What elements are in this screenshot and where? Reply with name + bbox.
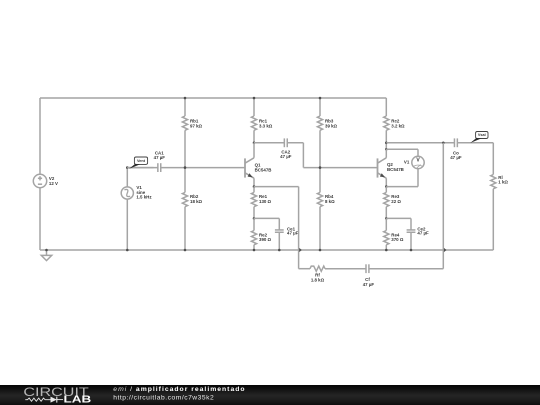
svg-text:8 kΩ: 8 kΩ xyxy=(325,199,335,204)
svg-text:47 µF: 47 µF xyxy=(287,231,299,236)
svg-text:47 µF: 47 µF xyxy=(280,154,292,159)
svg-text:12 V: 12 V xyxy=(49,181,58,186)
svg-text:Vent: Vent xyxy=(137,159,146,163)
svg-text:BC547B: BC547B xyxy=(387,167,404,172)
svg-text:390 Ω: 390 Ω xyxy=(259,237,272,242)
svg-text:http://circuitlab.com/c7w35k2: http://circuitlab.com/c7w35k2 xyxy=(113,395,214,402)
svg-text:BC547B: BC547B xyxy=(255,167,272,172)
svg-text:V1: V1 xyxy=(404,159,410,164)
svg-text:18 kΩ: 18 kΩ xyxy=(190,199,203,204)
svg-text:47 µF: 47 µF xyxy=(417,231,429,236)
svg-text:3.3 kΩ: 3.3 kΩ xyxy=(259,123,273,128)
svg-text:1.8 kΩ: 1.8 kΩ xyxy=(311,278,325,283)
svg-text:130 Ω: 130 Ω xyxy=(259,199,272,204)
svg-text:Vsal: Vsal xyxy=(478,133,486,137)
svg-text:22 Ω: 22 Ω xyxy=(391,199,401,204)
svg-text:47 µF: 47 µF xyxy=(154,155,166,160)
svg-text:LAB: LAB xyxy=(64,395,92,405)
svg-text:39 kΩ: 39 kΩ xyxy=(325,123,338,128)
svg-text:3.2 kΩ: 3.2 kΩ xyxy=(391,123,405,128)
svg-text:370 Ω: 370 Ω xyxy=(391,237,404,242)
svg-text:47 µF: 47 µF xyxy=(363,282,375,287)
svg-text:Rf: Rf xyxy=(315,272,320,277)
svg-text:97 kΩ: 97 kΩ xyxy=(190,123,203,128)
svg-text:47 µF: 47 µF xyxy=(450,155,462,160)
svg-text:1.5 kHz: 1.5 kHz xyxy=(136,195,152,200)
svg-text:1 kΩ: 1 kΩ xyxy=(498,180,508,185)
svg-text:emi / amplificador realimentad: emi / amplificador realimentado xyxy=(113,385,245,392)
